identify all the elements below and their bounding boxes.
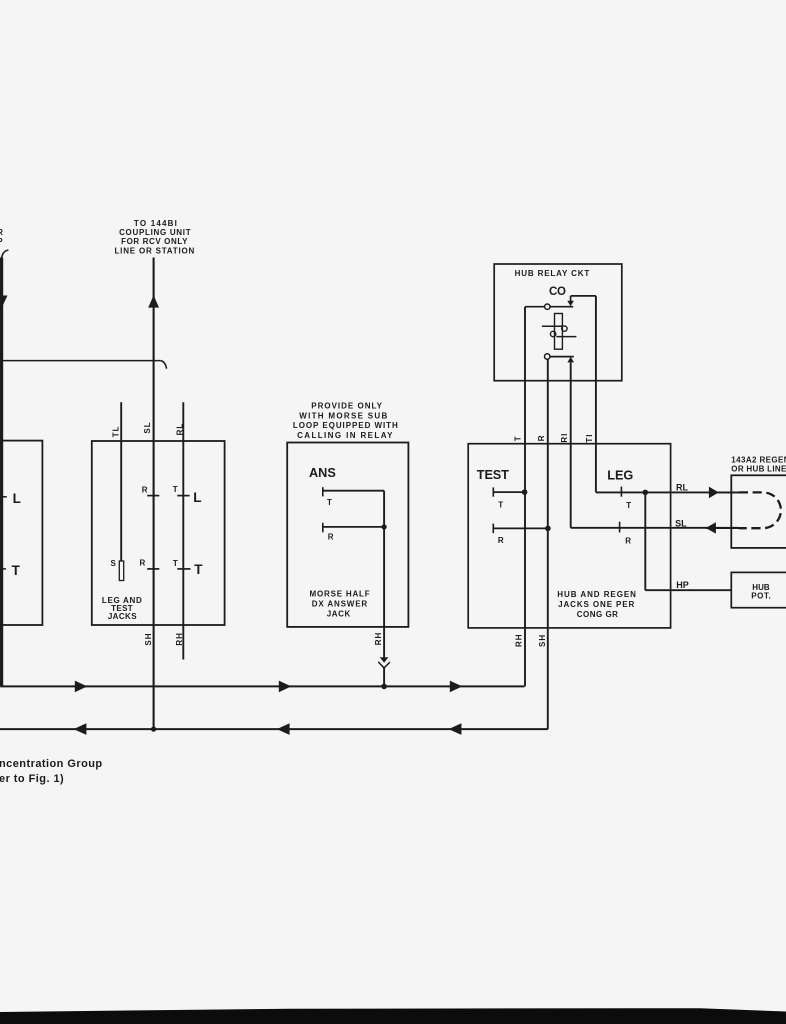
svg-text:T: T [513, 435, 522, 441]
svg-text:143A2 REGEN: 143A2 REGEN [731, 456, 786, 465]
svg-text:T: T [173, 485, 178, 494]
svg-text:WITH MORSE SUB: WITH MORSE SUB [299, 411, 388, 420]
svg-text:L: L [13, 491, 21, 506]
svg-text:CO: CO [549, 286, 566, 298]
svg-text:JACKS ONE PER: JACKS ONE PER [558, 600, 635, 609]
svg-text:SL: SL [143, 421, 152, 433]
svg-text:LEG: LEG [607, 469, 633, 483]
svg-text:R: R [328, 533, 334, 542]
svg-text:COUPLING UNIT: COUPLING UNIT [119, 228, 191, 237]
svg-text:T: T [327, 498, 332, 507]
svg-text:P: P [0, 237, 3, 246]
svg-text:TO 144BI: TO 144BI [134, 219, 178, 228]
svg-text:L: L [193, 490, 201, 505]
svg-text:HUB RELAY CKT: HUB RELAY CKT [515, 269, 591, 278]
svg-text:ncentration Group: ncentration Group [0, 758, 103, 770]
svg-text:T: T [12, 563, 21, 578]
svg-text:MORSE HALF: MORSE HALF [310, 590, 371, 599]
svg-text:CONG GR: CONG GR [577, 610, 619, 619]
svg-text:S: S [110, 559, 116, 568]
svg-text:DX ANSWER: DX ANSWER [312, 600, 368, 609]
svg-text:TEST: TEST [477, 468, 509, 482]
svg-text:PROVIDE ONLY: PROVIDE ONLY [311, 401, 383, 410]
svg-text:R: R [139, 558, 145, 567]
svg-text:JACK: JACK [327, 609, 351, 618]
svg-text:RH: RH [514, 633, 523, 647]
svg-text:SL: SL [675, 519, 687, 529]
svg-text:LINE OR STATION: LINE OR STATION [115, 246, 196, 255]
svg-text:TL: TL [112, 425, 121, 437]
svg-text:FOR RCV ONLY: FOR RCV ONLY [121, 237, 188, 246]
svg-text:RL: RL [175, 423, 184, 436]
svg-text:SH: SH [538, 634, 547, 647]
svg-text:CALLING IN RELAY: CALLING IN RELAY [297, 431, 394, 440]
svg-text:RH: RH [374, 632, 383, 646]
svg-text:RI: RI [560, 433, 569, 443]
svg-text:HUB AND REGEN: HUB AND REGEN [557, 590, 637, 599]
svg-text:TI: TI [585, 433, 594, 442]
svg-text:RH: RH [175, 632, 184, 646]
svg-text:R: R [498, 536, 504, 545]
svg-text:T: T [498, 500, 503, 509]
svg-text:T: T [194, 562, 203, 577]
svg-text:R: R [537, 434, 546, 441]
svg-text:HP: HP [676, 580, 689, 590]
svg-text:POT.: POT. [751, 592, 771, 601]
svg-text:LOOP EQUIPPED WITH: LOOP EQUIPPED WITH [293, 421, 399, 430]
svg-text:T: T [173, 559, 178, 568]
svg-text:R: R [0, 228, 3, 237]
svg-text:er to Fig. 1): er to Fig. 1) [0, 773, 64, 785]
svg-text:SH: SH [144, 632, 153, 645]
svg-text:R: R [142, 485, 148, 494]
svg-text:ANS: ANS [309, 466, 336, 480]
svg-text:JACKS: JACKS [108, 612, 137, 621]
svg-text:OR HUB LINE: OR HUB LINE [731, 465, 786, 474]
svg-text:T: T [626, 501, 631, 510]
svg-text:RL: RL [676, 483, 688, 493]
svg-text:R: R [625, 536, 631, 545]
svg-text:HUB: HUB [752, 583, 770, 592]
